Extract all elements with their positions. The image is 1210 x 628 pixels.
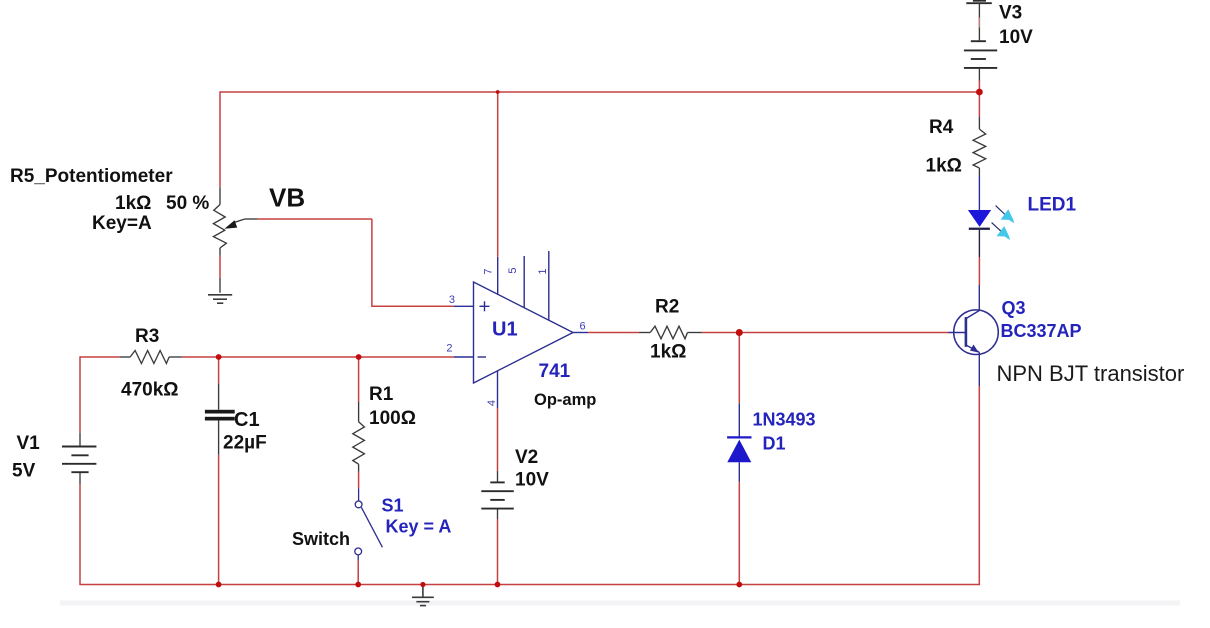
svg-text:LED1: LED1 [1028, 195, 1077, 216]
battery V3 [964, 1, 997, 68]
node junction switch bottom [355, 582, 361, 588]
potentiometer wiper arrow [224, 219, 257, 229]
node junction V2 bottom [495, 582, 501, 588]
node junction C1 bottom [216, 582, 222, 588]
svg-text:5V: 5V [12, 461, 36, 482]
wire switch bottom [357, 560, 359, 584]
svg-text:50 %: 50 % [166, 193, 209, 214]
svg-text:R5_Potentiometer: R5_Potentiometer [10, 166, 173, 187]
svg-text:V3: V3 [999, 3, 1022, 24]
resistor R4 [973, 117, 986, 176]
svg-text:1kΩ: 1kΩ [926, 156, 962, 177]
svg-text:2: 2 [446, 343, 452, 355]
svg-text:V1: V1 [17, 433, 41, 454]
svg-text:R4: R4 [929, 117, 954, 138]
resistor R1 [353, 402, 365, 472]
svg-text:Switch: Switch [292, 529, 350, 549]
svg-text:Key=A: Key=A [92, 213, 152, 234]
potentiometer R5 [213, 187, 226, 292]
wire top rail [220, 91, 979, 93]
Q3 emitter arrow [970, 345, 979, 353]
svg-text:Key = A: Key = A [386, 517, 452, 537]
svg-text:U1: U1 [492, 319, 518, 341]
node junction R2 D1 [736, 329, 743, 336]
op-amp minus sign [478, 356, 487, 358]
svg-text:7: 7 [483, 268, 495, 274]
svg-text:22µF: 22µF [223, 433, 267, 454]
svg-text:D1: D1 [763, 434, 786, 454]
svg-text:1N3493: 1N3493 [753, 410, 816, 430]
svg-text:R3: R3 [135, 326, 159, 347]
wire VB wiper horizontal [258, 218, 372, 220]
node junction C1 top [216, 354, 222, 360]
wire V1 bottom [79, 484, 81, 585]
battery V1 [79, 433, 81, 485]
node junction top pin7 [496, 90, 500, 94]
svg-text:V2: V2 [515, 447, 538, 468]
op-amp U1 [454, 251, 588, 408]
switch S1 [355, 488, 383, 560]
red tint on V3 lead [978, 18, 980, 28]
wire op-amp pin 4 to V2 [497, 408, 499, 471]
svg-text:3: 3 [449, 294, 455, 306]
wire R1 top [358, 357, 360, 402]
LED light arrow 2 [992, 223, 1010, 241]
svg-text:Q3: Q3 [1002, 298, 1026, 318]
resistor R3 [120, 351, 182, 364]
node junction ground rail [420, 582, 425, 587]
wire C1 bottom [218, 455, 220, 585]
faint artifact band bottom [60, 601, 1180, 606]
wire C1 top [218, 357, 220, 384]
svg-text:BC337AP: BC337AP [1001, 321, 1082, 341]
svg-text:C1: C1 [234, 409, 260, 431]
battery V2 [497, 471, 499, 519]
svg-text:470kΩ: 470kΩ [121, 380, 179, 401]
wire R2 to Q3 base [702, 332, 948, 334]
svg-text:Op-amp: Op-amp [534, 391, 596, 409]
wire op-amp pin 7 from rail [497, 92, 499, 257]
svg-text:1kΩ: 1kΩ [115, 193, 151, 214]
node junction D1 bottom [736, 582, 742, 588]
wire D1 top [738, 333, 740, 404]
LED1 [968, 176, 991, 257]
wire row2 to op-amp pin 2 [182, 356, 454, 358]
ground under potentiometer [208, 295, 232, 303]
wire bottom rail [80, 584, 979, 586]
wire op-amp output [588, 332, 639, 334]
node junction R1 top [356, 354, 362, 360]
svg-text:10V: 10V [999, 27, 1033, 48]
op-amp plus sign [478, 301, 490, 357]
wire V1 top [79, 356, 81, 432]
wire potentiometer top [219, 91, 221, 187]
wire junction to R4 [978, 92, 980, 117]
capacitor C1 [205, 384, 235, 455]
svg-text:741: 741 [539, 361, 571, 382]
svg-text:6: 6 [580, 321, 586, 333]
svg-text:1: 1 [537, 268, 549, 274]
svg-text:1kΩ: 1kΩ [650, 342, 686, 363]
svg-text:5: 5 [507, 267, 519, 273]
svg-text:VB: VB [269, 183, 305, 213]
diode D1 [727, 403, 751, 482]
svg-text:R1: R1 [369, 384, 394, 405]
ground under switch [412, 585, 434, 606]
wire potentiometer lower [219, 256, 221, 278]
svg-text:10V: 10V [515, 470, 549, 491]
wire to op-amp pin 3 [371, 305, 454, 307]
wire Q3 emitter to rail [978, 386, 980, 585]
svg-text:100Ω: 100Ω [369, 408, 416, 429]
wire D1 bottom [738, 482, 740, 585]
svg-text:R2: R2 [655, 297, 679, 318]
node junction top V3 [976, 89, 983, 96]
svg-text:S1: S1 [382, 496, 404, 516]
wire V3 to junction [978, 81, 980, 93]
wire VB vertical [371, 219, 373, 306]
LED light arrow 1 [996, 206, 1015, 224]
wire row2 left [80, 356, 120, 358]
wire R1 to switch [358, 472, 360, 489]
svg-text:NPN BJT transistor: NPN BJT transistor [997, 361, 1185, 386]
wire LED to Q3 collector [978, 257, 980, 285]
resistor R2 [639, 326, 702, 339]
transistor Q3 [948, 285, 998, 386]
svg-text:4: 4 [486, 400, 498, 406]
wire V2 bottom [497, 519, 499, 585]
